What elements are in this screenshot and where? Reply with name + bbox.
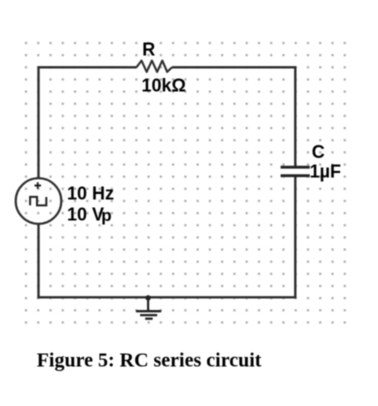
wire: top-right segment [172,66,295,68]
node: junction dot [145,295,150,300]
svg-text:C: C [312,142,325,162]
svg-text:R: R [142,40,155,60]
plus sign of source [35,182,42,189]
svg-text:10kΩ: 10kΩ [142,75,186,95]
svg-text:1µF: 1µF [310,161,341,181]
wire: right lower segment [294,177,296,299]
wire: left lower segment [37,224,39,299]
wire: bottom segment [37,296,296,298]
svg-text:10 Vp: 10 Vp [67,204,112,225]
svg-text:10 Hz: 10 Hz [67,183,114,203]
voltage source V1 [16,178,62,224]
resistor R [137,61,173,72]
ground [136,298,161,319]
capacitor C [281,167,310,176]
grid background (decorative) [21,38,349,328]
wire: top-left corner + left upper segment [37,66,39,178]
wire: right upper segment [294,66,296,166]
wire: top-left segment [39,66,137,68]
svg-text:Figure 5: RC series circuit: Figure 5: RC series circuit [37,349,262,371]
square wave symbol of source [30,197,46,206]
